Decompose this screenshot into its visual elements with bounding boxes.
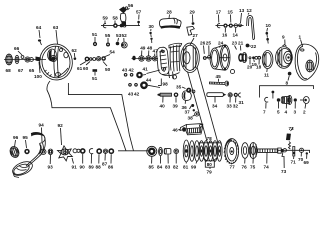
leader frame to stack b — [197, 67, 218, 143]
label 52 — [122, 33, 128, 42]
svg-text:38: 38 — [188, 116, 194, 121]
dot 19b — [252, 56, 255, 59]
svg-text:100: 100 — [34, 74, 42, 79]
washer 25 — [208, 56, 211, 59]
clip 31 — [238, 93, 241, 97]
pawl parts 73 — [282, 149, 286, 168]
label 23 — [232, 41, 238, 50]
label 12 — [247, 8, 253, 15]
leader frame to stack a — [188, 72, 208, 144]
label 29 — [190, 10, 196, 23]
svg-text:2: 2 — [303, 110, 306, 115]
svg-text:3: 3 — [294, 110, 297, 115]
svg-text:34: 34 — [212, 104, 218, 109]
box label 80 — [203, 158, 217, 169]
lever 72 — [285, 128, 293, 142]
washer small — [93, 58, 96, 61]
svg-text:42: 42 — [129, 68, 135, 73]
label 63 — [53, 25, 59, 44]
washer 65a — [25, 57, 30, 62]
label 25 — [206, 41, 212, 56]
dot 8 — [288, 72, 292, 76]
svg-text:66: 66 — [14, 46, 20, 51]
svg-text:14: 14 — [233, 33, 239, 38]
svg-text:99: 99 — [191, 165, 197, 170]
washer 75 — [249, 143, 257, 164]
svg-text:59: 59 — [103, 16, 109, 21]
washer 60 — [89, 57, 93, 61]
svg-text:64: 64 — [36, 25, 42, 30]
label 22 — [250, 44, 257, 49]
label 53 — [116, 33, 122, 42]
part 100 wedge — [36, 57, 42, 74]
label 13 — [239, 8, 245, 23]
nut 95 — [24, 149, 29, 154]
svg-text:88: 88 — [96, 165, 102, 170]
label 18 — [256, 60, 262, 70]
label 48 — [147, 46, 153, 56]
drag disc 99a — [189, 141, 194, 162]
handle arm 94 — [26, 132, 46, 166]
svg-text:21: 21 — [238, 41, 244, 46]
svg-text:60: 60 — [83, 66, 89, 71]
drag disc e — [208, 141, 213, 162]
washer 43b — [128, 83, 132, 87]
washer 67 — [15, 55, 19, 63]
washer 90a — [73, 149, 77, 153]
svg-text:80: 80 — [207, 162, 213, 167]
cam 36 — [182, 89, 191, 104]
label 77 — [230, 164, 236, 170]
label 96 — [13, 135, 19, 147]
washer 15 — [229, 24, 233, 28]
label 41 — [143, 67, 149, 72]
label 19 — [252, 60, 258, 68]
svg-text:78: 78 — [207, 136, 213, 141]
clip 59 — [103, 24, 106, 28]
washer 14b — [239, 24, 242, 27]
svg-text:25: 25 — [206, 41, 212, 46]
svg-text:29: 29 — [190, 10, 196, 15]
dot 5 — [277, 98, 280, 108]
bracket 27 — [187, 26, 195, 35]
axis wire left row — [4, 59, 46, 61]
threaded shaft 40 — [158, 93, 172, 102]
wire clutch row — [101, 25, 140, 27]
svg-text:11: 11 — [264, 73, 269, 78]
label 28 — [167, 10, 173, 19]
washer 55 — [106, 43, 110, 47]
svg-text:86: 86 — [108, 165, 114, 170]
spool — [206, 45, 235, 74]
washer 65b — [30, 58, 34, 62]
label 60 — [83, 62, 90, 72]
label 59 — [103, 16, 109, 24]
label 71 — [291, 156, 297, 164]
label 93 — [48, 155, 54, 170]
svg-text:50: 50 — [105, 67, 111, 72]
worm frame 46 — [180, 124, 203, 135]
washer 14 — [234, 24, 238, 28]
svg-text:58: 58 — [113, 16, 119, 21]
dot 38b — [193, 109, 195, 111]
svg-text:63: 63 — [53, 25, 59, 30]
svg-text:7: 7 — [263, 110, 266, 115]
svg-text:39: 39 — [173, 104, 179, 109]
wire kick base — [278, 150, 310, 153]
svg-text:69: 69 — [304, 160, 310, 165]
svg-text:56: 56 — [128, 3, 134, 8]
svg-text:37: 37 — [185, 110, 191, 115]
svg-text:51: 51 — [92, 32, 98, 37]
label 14 — [233, 28, 239, 38]
cam ring 52 — [121, 42, 127, 48]
leader wire B from plate — [68, 83, 133, 151]
svg-text:83: 83 — [165, 165, 171, 170]
ring 22 dot — [246, 44, 250, 48]
svg-text:90: 90 — [80, 165, 86, 170]
spring 73 — [289, 142, 291, 150]
label 16 — [222, 28, 228, 38]
screw 45 — [210, 81, 229, 86]
svg-text:4: 4 — [285, 110, 288, 115]
bearing 20 — [242, 53, 247, 63]
label 10 — [266, 23, 272, 32]
svg-text:76: 76 — [242, 165, 248, 170]
screw 30a — [149, 32, 151, 37]
washer 87 — [103, 149, 107, 161]
svg-text:1: 1 — [299, 35, 302, 40]
svg-text:26: 26 — [200, 41, 206, 46]
reel frame — [157, 43, 200, 79]
screw 69 — [306, 152, 308, 159]
svg-text:10: 10 — [266, 23, 272, 28]
nut 90 — [80, 148, 86, 163]
svg-text:13: 13 — [239, 8, 245, 13]
part 51 dark block — [93, 69, 98, 75]
label 95 — [23, 135, 29, 148]
svg-text:82: 82 — [173, 165, 179, 170]
svg-text:57: 57 — [136, 10, 142, 15]
svg-text:24: 24 — [218, 41, 224, 46]
pin 83 — [164, 149, 171, 164]
wire 48 row — [132, 58, 159, 60]
dot 3 — [294, 98, 297, 108]
svg-text:42: 42 — [134, 92, 140, 97]
label 92 — [58, 123, 64, 145]
svg-text:52: 52 — [122, 33, 128, 38]
washer 76 — [242, 143, 249, 164]
label 9 — [282, 35, 285, 45]
screw 10a — [266, 32, 269, 38]
label 30 — [149, 24, 155, 31]
label 66 — [14, 46, 22, 55]
svg-text:27: 27 — [193, 33, 199, 38]
main gear 77 — [224, 139, 239, 165]
ring 86 — [108, 148, 114, 163]
washer 53 row — [120, 24, 126, 28]
side cover 1 — [295, 44, 319, 80]
svg-text:98: 98 — [163, 81, 169, 86]
svg-text:67: 67 — [18, 68, 24, 73]
bracket 78 — [199, 141, 221, 145]
spool shaft 74 — [258, 149, 277, 164]
svg-text:61: 61 — [77, 66, 83, 71]
svg-text:81: 81 — [183, 165, 189, 170]
svg-text:5: 5 — [277, 110, 280, 115]
washer 26 — [203, 56, 207, 60]
label 50 — [103, 62, 111, 73]
star drag 91 — [58, 146, 73, 161]
label 11 — [264, 69, 269, 78]
svg-text:54: 54 — [110, 50, 116, 55]
wire worm row — [216, 25, 244, 27]
label 35 — [176, 85, 186, 90]
svg-text:87: 87 — [102, 162, 108, 167]
svg-text:33: 33 — [227, 104, 233, 109]
gear 41 — [136, 70, 160, 78]
svg-text:73: 73 — [281, 169, 287, 174]
label 15 — [228, 10, 234, 23]
svg-text:16: 16 — [222, 33, 228, 38]
washer 53 — [116, 42, 120, 46]
leader wire A from plate — [47, 81, 126, 151]
svg-text:89: 89 — [89, 165, 95, 170]
svg-text:18: 18 — [256, 65, 262, 70]
svg-text:84: 84 — [157, 165, 163, 170]
drag disc f — [212, 141, 217, 162]
svg-text:68: 68 — [6, 68, 12, 73]
label 94 — [39, 123, 45, 143]
drag disc 81 — [183, 140, 189, 164]
svg-text:17: 17 — [216, 10, 222, 15]
label 46 — [173, 128, 181, 133]
svg-text:40: 40 — [160, 104, 166, 109]
svg-text:51: 51 — [92, 76, 98, 81]
svg-text:96: 96 — [13, 135, 19, 140]
screw 64 — [38, 39, 42, 45]
svg-text:28: 28 — [167, 10, 173, 15]
svg-text:15: 15 — [228, 10, 234, 15]
svg-text:85: 85 — [149, 165, 155, 170]
svg-text:43: 43 — [122, 68, 128, 73]
washer 33 — [228, 93, 232, 103]
gear 85 — [147, 146, 157, 163]
svg-text:46: 46 — [173, 128, 179, 133]
svg-text:12: 12 — [247, 8, 253, 13]
dot 18 — [257, 56, 261, 60]
gear 35 — [186, 88, 195, 93]
ring 11 — [262, 51, 273, 69]
label 47 — [153, 49, 159, 56]
svg-text:95: 95 — [23, 135, 29, 140]
label 26 — [200, 41, 206, 54]
drag disc c — [199, 141, 204, 162]
kick pawl 71 — [293, 147, 296, 157]
label 21 — [238, 41, 244, 51]
bracket wire 8 — [260, 86, 314, 98]
label 58 — [113, 16, 119, 24]
drag disc d — [203, 141, 208, 162]
svg-text:35: 35 — [176, 85, 182, 90]
label 56 — [128, 3, 134, 10]
label 24 — [218, 41, 224, 48]
screw 30b — [150, 38, 152, 43]
label 45 — [216, 74, 222, 82]
svg-text:55: 55 — [105, 33, 111, 38]
label 55 — [105, 33, 111, 43]
washer 41a dark — [132, 56, 135, 61]
screw 29 — [192, 22, 195, 25]
svg-text:8: 8 — [286, 81, 289, 86]
ring 88 — [96, 148, 102, 163]
label 36 — [182, 105, 188, 110]
screw 10b — [266, 38, 269, 44]
dot 19 — [255, 56, 258, 59]
side plate 63 — [37, 42, 74, 82]
label 62 — [72, 48, 78, 60]
part 50 dark — [101, 56, 106, 61]
bearing 68 — [6, 54, 13, 65]
drag disc g — [217, 141, 222, 162]
washer 61 — [85, 57, 90, 62]
svg-text:77: 77 — [230, 165, 236, 170]
drum 4 — [281, 95, 292, 108]
clip 17 — [217, 24, 220, 28]
washer 82 — [174, 149, 179, 164]
label 57 — [136, 10, 142, 20]
washer 42b — [134, 83, 138, 87]
ring 48 — [146, 56, 151, 61]
label 8 — [286, 76, 290, 86]
ring 70 — [299, 148, 303, 156]
nut 74 end — [278, 148, 283, 153]
washer 42a — [130, 73, 134, 77]
washer 51b — [93, 42, 97, 46]
label 61 — [77, 62, 86, 72]
clip 7 — [265, 97, 269, 108]
svg-text:49: 49 — [140, 46, 146, 51]
washer 39 — [174, 93, 179, 103]
label 54 — [104, 50, 115, 58]
label 20 — [247, 59, 253, 69]
dot 20 — [249, 57, 251, 59]
svg-text:92: 92 — [58, 123, 64, 128]
svg-text:72: 72 — [289, 126, 295, 131]
svg-text:93: 93 — [48, 165, 54, 170]
svg-text:43: 43 — [128, 92, 134, 97]
label 27 — [190, 33, 198, 45]
svg-text:75: 75 — [250, 165, 256, 170]
svg-text:22: 22 — [251, 44, 257, 49]
svg-text:23: 23 — [232, 41, 238, 46]
washer 90b — [77, 149, 80, 152]
washer 16 — [223, 24, 227, 28]
washer 43a — [124, 73, 128, 77]
label 49 — [140, 46, 146, 56]
label 51b — [92, 32, 98, 42]
svg-text:9: 9 — [282, 35, 285, 40]
label 91 — [72, 158, 78, 170]
svg-text:30: 30 — [149, 24, 155, 29]
label 98 — [158, 79, 168, 87]
washer 54 — [97, 57, 101, 61]
washer 84 — [159, 147, 163, 163]
spring band 12 — [247, 15, 255, 39]
pinion ring 21 — [238, 53, 243, 62]
thumb rest 28 — [159, 18, 181, 29]
screw 57 — [137, 21, 140, 26]
pipe 34 — [207, 93, 227, 103]
clutch lever 56 — [119, 7, 128, 27]
washer 58 — [113, 23, 118, 28]
wire to part 85 — [118, 150, 148, 152]
svg-text:91: 91 — [72, 165, 78, 170]
cap nut 96 — [9, 145, 21, 158]
label 64 — [36, 25, 42, 38]
ring 49 — [139, 56, 144, 61]
svg-text:44: 44 — [146, 78, 152, 83]
svg-text:94: 94 — [39, 123, 45, 128]
drum 9 — [276, 45, 293, 69]
screw 66 — [21, 56, 24, 59]
part 38 — [193, 112, 199, 116]
label 1 — [299, 35, 303, 47]
label 17 — [216, 10, 222, 23]
handle knob 92 — [11, 159, 35, 178]
gear 44 — [140, 81, 160, 89]
cap 2 — [300, 97, 309, 109]
svg-text:31: 31 — [239, 100, 245, 105]
washer 93a — [48, 149, 53, 155]
ring 47 — [152, 56, 157, 61]
drag disc 99b — [194, 141, 199, 164]
svg-text:62: 62 — [72, 48, 78, 53]
svg-text:74: 74 — [264, 165, 270, 170]
screw 6 — [272, 91, 275, 99]
label 44 — [146, 78, 152, 83]
washer 32 — [234, 93, 238, 103]
svg-text:41: 41 — [143, 67, 149, 72]
svg-text:79: 79 — [207, 170, 213, 175]
dot 37 — [190, 104, 195, 109]
svg-text:71: 71 — [291, 160, 297, 165]
clip 89 — [89, 149, 93, 164]
svg-text:45: 45 — [216, 74, 222, 79]
svg-text:65: 65 — [29, 68, 35, 73]
